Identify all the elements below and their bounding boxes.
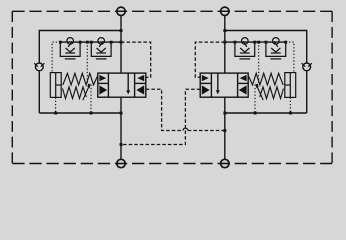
port C2	[221, 159, 229, 167]
test point M1	[34, 63, 44, 71]
adjuster arrow CB2	[256, 83, 264, 100]
CB2 check poppet arrows	[202, 75, 247, 95]
spring CB1 upper	[63, 73, 98, 85]
relief valve RV2	[91, 38, 111, 59]
wire: right drain rail	[225, 112, 307, 114]
test point M2	[302, 63, 312, 71]
drain: spring chamber tap	[255, 42, 259, 113]
pilot: CB1 crossover to right line	[146, 89, 183, 130]
counterbalance valve CB2 body	[200, 73, 248, 97]
wire: C2 drop	[224, 97, 226, 159]
drain: relief gallery right leg	[286, 42, 294, 73]
drain: under-piston leg	[55, 97, 57, 113]
CB2 relief poppet	[216, 73, 220, 94]
drain: spring chamber tap	[87, 42, 91, 113]
pilot piston CB1	[50, 73, 61, 98]
wire: C1 drop	[120, 97, 122, 159]
enclosure (valve block boundary, dashed)	[12, 11, 332, 163]
port C1	[117, 159, 125, 167]
port V2	[221, 7, 229, 15]
pilot piston CB2	[285, 73, 296, 98]
wire: V2 riser	[224, 15, 226, 73]
adjuster arrow CB1	[83, 83, 91, 100]
pilot: CB2 crossover to left line	[121, 89, 200, 144]
pilot lines (dotted), right	[255, 42, 294, 113]
wire: border through C2	[220, 163, 230, 165]
CB1 relief poppet	[126, 73, 130, 94]
pilot line hop	[183, 128, 188, 130]
CB1 check poppet arrows	[99, 75, 144, 95]
pilot: CB1 top pilot from V1	[121, 42, 151, 77]
wire: left relief gallery	[60, 41, 121, 43]
wire: left drain rail	[39, 112, 121, 114]
spring CB2 lower	[260, 87, 284, 99]
wire: border through C1	[116, 163, 126, 165]
port V1	[117, 7, 125, 15]
wire: V1 riser	[120, 15, 122, 73]
spring CB2 upper	[249, 73, 284, 85]
wire: border through V2	[220, 10, 230, 12]
spring CB1 lower	[63, 87, 87, 99]
wire: right top header	[225, 31, 307, 114]
relief valve RV1	[60, 38, 80, 59]
counterbalance valve CB1 body	[98, 73, 146, 97]
relief valve RV3	[235, 38, 255, 59]
relief valve RV4	[266, 38, 286, 59]
wire: right relief gallery	[225, 41, 286, 43]
pilot: CB2 top pilot from V2	[195, 42, 225, 77]
pilot lines (dotted), left	[52, 42, 91, 113]
drain: relief gallery left leg	[52, 42, 60, 73]
drain: under-piston leg	[289, 97, 291, 113]
wire: left top header	[39, 31, 121, 114]
wire: border through V1	[116, 10, 126, 12]
